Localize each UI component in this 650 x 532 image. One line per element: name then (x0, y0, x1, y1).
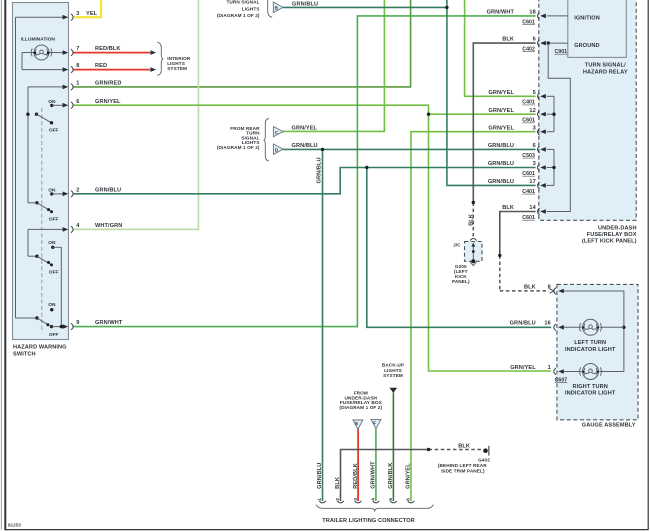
svg-text:LEFT TURN: LEFT TURN (574, 340, 606, 346)
svg-text:4: 4 (371, 498, 376, 501)
svg-text:OFF: OFF (49, 332, 59, 338)
svg-text:INDICATOR LIGHT: INDICATOR LIGHT (565, 347, 616, 353)
svg-text:GRN/BLU: GRN/BLU (317, 463, 323, 489)
svg-text:12: 12 (529, 108, 535, 114)
svg-text:(DIAGRAM 1 OF 2): (DIAGRAM 1 OF 2) (217, 145, 260, 150)
svg-text:(LEFT KICK PANEL): (LEFT KICK PANEL) (582, 238, 637, 244)
svg-text:GRN/BLU: GRN/BLU (292, 2, 318, 8)
svg-text:17: 17 (529, 179, 535, 185)
svg-text:BLK: BLK (458, 443, 470, 449)
svg-text:16: 16 (544, 321, 550, 327)
svg-text:GRN/YEL: GRN/YEL (488, 90, 514, 96)
svg-text:2: 2 (76, 187, 79, 193)
svg-text:7: 7 (76, 46, 79, 52)
svg-text:GRN/BLU: GRN/BLU (488, 143, 514, 149)
svg-text:GRN/YEL: GRN/YEL (95, 99, 121, 105)
svg-text:GRN/WHT: GRN/WHT (95, 320, 123, 326)
svg-text:GRN/BLU: GRN/BLU (488, 161, 514, 167)
svg-text:C401: C401 (522, 100, 535, 106)
svg-text:81253: 81253 (8, 523, 21, 528)
svg-text:ON: ON (48, 302, 56, 308)
svg-text:BLK: BLK (335, 477, 341, 489)
svg-text:GRN/YEL: GRN/YEL (488, 125, 514, 131)
svg-text:GRN/YEL: GRN/YEL (292, 125, 318, 131)
svg-text:C601: C601 (522, 171, 535, 177)
svg-text:IGNITION: IGNITION (574, 15, 600, 21)
svg-text:1: 1 (317, 498, 322, 501)
svg-text:C401: C401 (522, 189, 535, 195)
svg-text:3: 3 (533, 125, 536, 131)
svg-text:GRN/WHT: GRN/WHT (371, 461, 377, 489)
svg-text:14: 14 (529, 205, 536, 211)
svg-text:SWITCH: SWITCH (13, 351, 36, 357)
svg-text:GRN/BLU: GRN/BLU (95, 187, 121, 193)
svg-text:ON: ON (48, 240, 56, 246)
svg-text:GRN/YEL: GRN/YEL (510, 365, 536, 371)
svg-text:HAZARD WARNING: HAZARD WARNING (13, 345, 67, 351)
svg-text:OFF: OFF (49, 269, 59, 275)
svg-text:C503: C503 (522, 153, 535, 159)
svg-text:8: 8 (76, 63, 79, 69)
svg-text:INDICATOR LIGHT: INDICATOR LIGHT (565, 391, 616, 397)
svg-text:18: 18 (529, 10, 535, 16)
svg-text:TRAILER LIGHTING CONNECTOR: TRAILER LIGHTING CONNECTOR (322, 518, 415, 524)
svg-text:C607: C607 (555, 377, 568, 383)
svg-text:TURN SIGNAL/: TURN SIGNAL/ (585, 62, 626, 68)
svg-text:WHT/GRN: WHT/GRN (95, 223, 122, 229)
svg-text:SYSTEM: SYSTEM (167, 66, 187, 71)
svg-text:F: F (373, 421, 376, 426)
svg-text:GRN/BLU: GRN/BLU (510, 321, 536, 327)
svg-text:BLK: BLK (468, 214, 474, 226)
svg-text:6: 6 (533, 143, 536, 149)
svg-text:HAZARD RELAY: HAZARD RELAY (583, 69, 628, 75)
svg-text:PANEL): PANEL) (452, 279, 470, 284)
svg-text:5: 5 (388, 498, 393, 501)
svg-text:C601: C601 (522, 118, 535, 124)
svg-text:ON: ON (48, 99, 56, 105)
svg-text:SIDE TRIM PANEL): SIDE TRIM PANEL) (441, 468, 485, 473)
svg-text:3: 3 (353, 498, 358, 501)
svg-text:UNDER-DASH: UNDER-DASH (598, 225, 637, 231)
svg-text:TURN SIGNAL: TURN SIGNAL (226, 0, 259, 5)
svg-text:C601: C601 (522, 215, 535, 221)
svg-text:2: 2 (335, 498, 340, 501)
svg-text:(BEHIND LEFT REAR: (BEHIND LEFT REAR (438, 463, 487, 468)
svg-text:(DIAGRAM 1 OF 2): (DIAGRAM 1 OF 2) (217, 13, 260, 18)
svg-text:9: 9 (76, 320, 79, 326)
svg-text:C402: C402 (522, 47, 535, 53)
svg-text:6: 6 (76, 99, 79, 105)
svg-text:RED/BLK: RED/BLK (353, 463, 359, 489)
svg-text:RED: RED (95, 63, 107, 69)
svg-text:GRN/BLU: GRN/BLU (292, 143, 318, 149)
svg-text:1: 1 (76, 81, 79, 87)
svg-text:GRN/BLU: GRN/BLU (316, 157, 322, 183)
svg-text:(DIAGRAM 1 OF 2): (DIAGRAM 1 OF 2) (339, 405, 382, 410)
svg-text:8: 8 (548, 284, 551, 290)
svg-text:YEL: YEL (86, 11, 98, 17)
svg-text:6: 6 (533, 37, 536, 43)
svg-text:GRN/YEL: GRN/YEL (488, 108, 514, 114)
svg-text:SYSTEM: SYSTEM (383, 373, 403, 378)
svg-text:GROUND: GROUND (574, 43, 599, 49)
svg-text:E: E (355, 421, 358, 426)
svg-text:GRN/RED: GRN/RED (95, 81, 122, 87)
svg-text:BLK: BLK (524, 284, 536, 290)
svg-text:6: 6 (406, 498, 411, 501)
svg-text:GRN/BLU: GRN/BLU (488, 179, 514, 185)
svg-text:FUSE/RELAY BOX: FUSE/RELAY BOX (587, 232, 637, 238)
svg-text:RED/BLK: RED/BLK (95, 46, 121, 52)
svg-text:ON: ON (48, 187, 56, 193)
svg-text:GRN/BLK: GRN/BLK (388, 463, 394, 489)
svg-text:ILLUMINATION: ILLUMINATION (21, 36, 56, 42)
svg-text:GRN/WHT: GRN/WHT (487, 10, 515, 16)
svg-text:C601: C601 (522, 19, 535, 25)
svg-text:1: 1 (548, 365, 551, 371)
svg-text:C901: C901 (554, 49, 567, 55)
svg-text:J/C: J/C (453, 242, 461, 247)
svg-text:OFF: OFF (49, 216, 59, 222)
svg-text:RIGHT TURN: RIGHT TURN (572, 384, 608, 390)
svg-text:LIGHTS: LIGHTS (242, 6, 260, 11)
svg-text:3: 3 (76, 11, 79, 17)
svg-text:5: 5 (533, 90, 536, 96)
svg-text:G402: G402 (478, 458, 490, 463)
svg-text:BLK: BLK (502, 37, 514, 43)
svg-text:OFF: OFF (49, 128, 59, 134)
svg-text:GAUGE ASSEMBLY: GAUGE ASSEMBLY (582, 422, 636, 428)
svg-text:BLK: BLK (502, 205, 514, 211)
svg-text:GRN/YEL: GRN/YEL (406, 463, 412, 489)
svg-text:3: 3 (533, 161, 536, 167)
